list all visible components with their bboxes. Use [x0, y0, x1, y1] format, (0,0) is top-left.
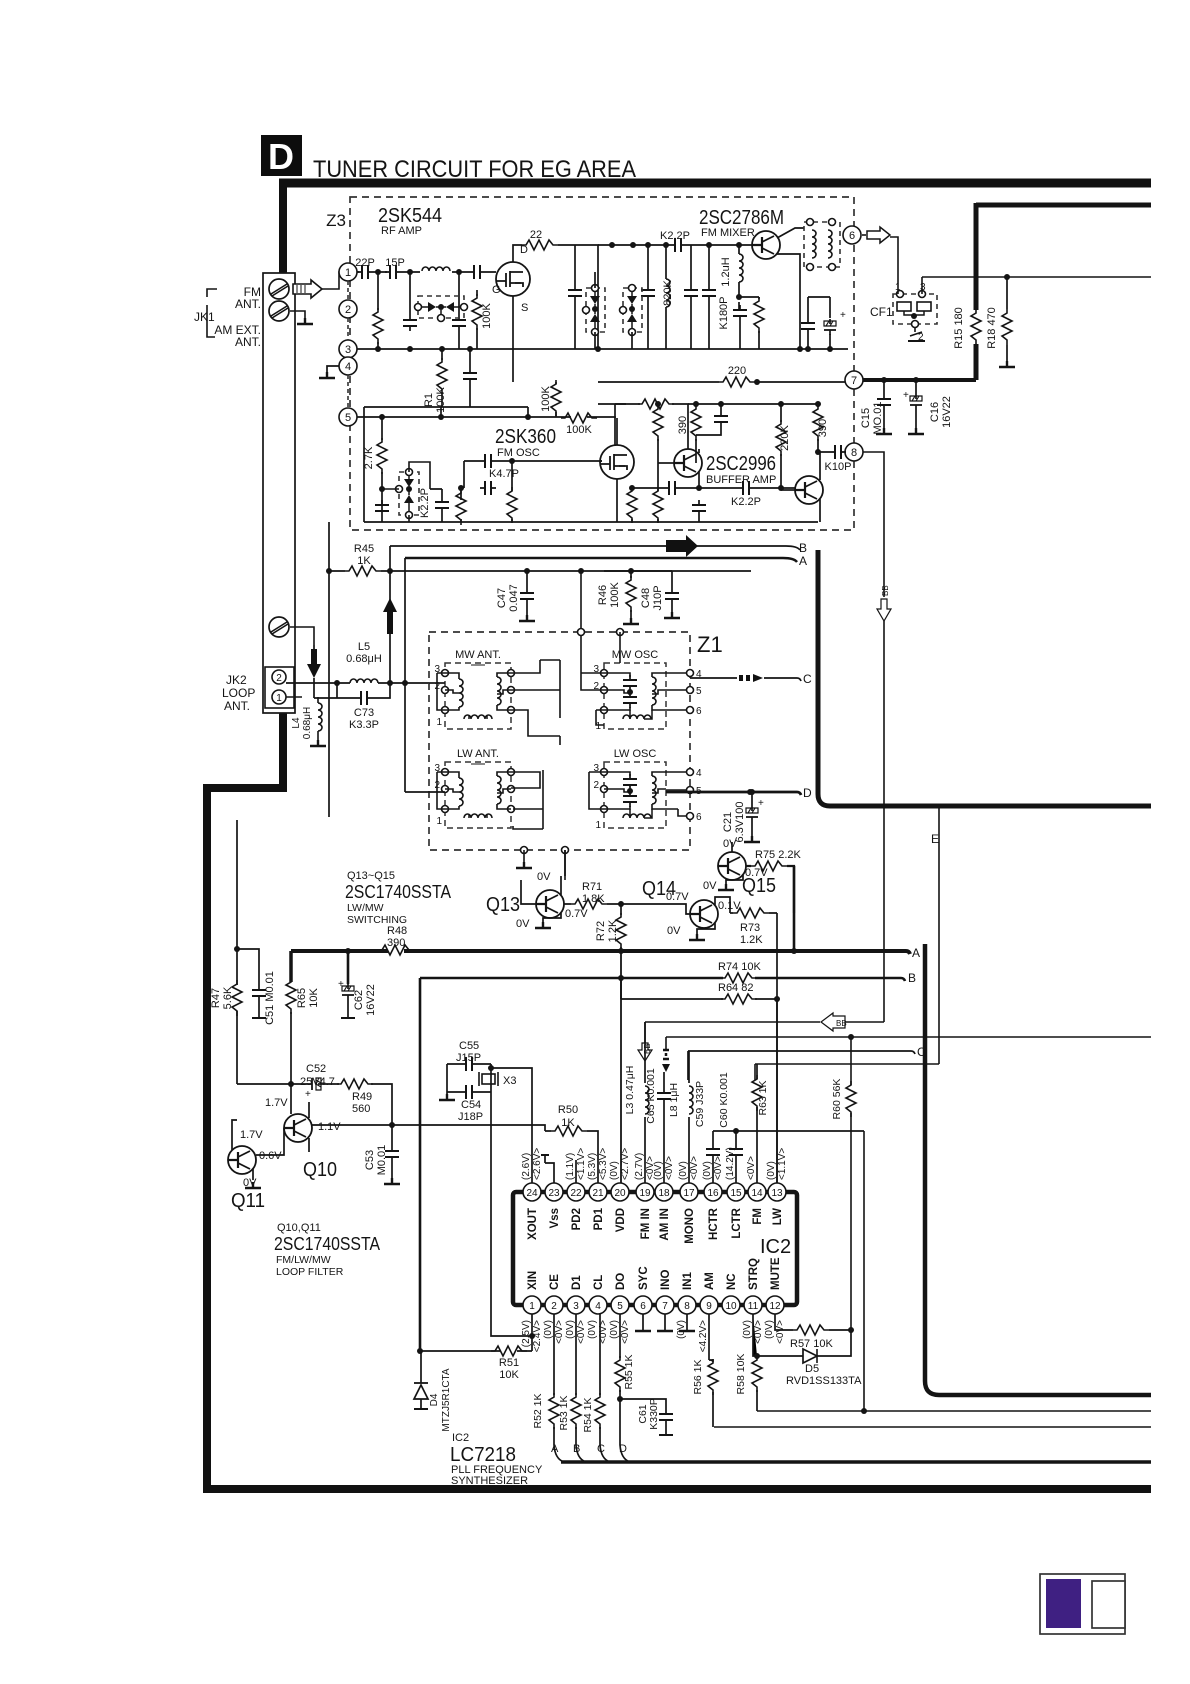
- svg-text:<4.2V>: <4.2V>: [698, 1320, 709, 1352]
- svg-text:R47: R47: [210, 988, 222, 1008]
- svg-text:390: 390: [817, 419, 829, 437]
- svg-text:Z1: Z1: [697, 632, 723, 657]
- svg-text:K3.3P: K3.3P: [349, 719, 379, 731]
- svg-text:<1.1V>: <1.1V>: [576, 1148, 587, 1180]
- svg-text:C16: C16: [929, 402, 941, 422]
- svg-text:+: +: [338, 979, 344, 990]
- svg-text:INO: INO: [660, 1270, 672, 1291]
- svg-text:FM: FM: [752, 1208, 764, 1225]
- svg-text:16: 16: [707, 1188, 719, 1199]
- svg-text:9: 9: [706, 1301, 712, 1312]
- svg-text:K2.2P: K2.2P: [419, 488, 431, 518]
- svg-text:7: 7: [851, 375, 857, 387]
- svg-text:J18P: J18P: [458, 1111, 483, 1123]
- svg-text:+: +: [903, 390, 909, 401]
- svg-text:16V22: 16V22: [365, 984, 377, 1016]
- svg-text:3: 3: [573, 1301, 579, 1312]
- svg-text:(2.7V): (2.7V): [634, 1153, 645, 1180]
- svg-text:R53 1K: R53 1K: [558, 1395, 570, 1430]
- svg-text:C48: C48: [640, 588, 652, 608]
- svg-text:A: A: [912, 946, 920, 960]
- svg-text:0.68μH: 0.68μH: [346, 653, 382, 665]
- svg-text:RF AMP: RF AMP: [381, 225, 422, 237]
- svg-text:AM IN: AM IN: [659, 1208, 671, 1241]
- svg-text:AM: AM: [704, 1272, 716, 1290]
- svg-text:4: 4: [595, 1301, 601, 1312]
- svg-text:22: 22: [570, 1188, 582, 1199]
- svg-text:100K: 100K: [566, 424, 592, 436]
- svg-text:BUFFER AMP: BUFFER AMP: [706, 474, 776, 486]
- svg-text:22: 22: [530, 229, 542, 241]
- svg-text:100K: 100K: [540, 385, 552, 411]
- svg-text:C52: C52: [306, 1063, 326, 1075]
- svg-text:0V: 0V: [516, 918, 530, 930]
- svg-text:1.7V: 1.7V: [240, 1129, 263, 1141]
- svg-text:7: 7: [662, 1301, 668, 1312]
- svg-text:ANT.: ANT.: [224, 699, 250, 713]
- svg-text:JK1: JK1: [194, 310, 215, 324]
- svg-text:CF1: CF1: [870, 305, 893, 319]
- svg-text:R73: R73: [740, 922, 760, 934]
- svg-text:C15: C15: [860, 408, 872, 428]
- svg-text:DO: DO: [615, 1273, 627, 1290]
- svg-text:MO.01: MO.01: [872, 401, 884, 434]
- svg-text:C21: C21: [722, 812, 734, 832]
- svg-text:ANT.: ANT.: [235, 297, 261, 311]
- svg-text:0V: 0V: [537, 871, 551, 883]
- svg-text:(0V): (0V): [766, 1161, 777, 1180]
- svg-text:MW ANT.: MW ANT.: [455, 649, 501, 661]
- svg-text:MTZJ5R1CTA: MTZJ5R1CTA: [441, 1368, 452, 1431]
- svg-text:<0V>: <0V>: [554, 1320, 565, 1344]
- svg-text:12: 12: [769, 1301, 781, 1312]
- svg-text:CE: CE: [549, 1274, 561, 1290]
- svg-text:+: +: [840, 310, 846, 321]
- svg-text:2SK360: 2SK360: [495, 426, 556, 448]
- svg-text:13: 13: [771, 1188, 783, 1199]
- svg-text:1.7V: 1.7V: [265, 1097, 288, 1109]
- svg-text:Q15: Q15: [742, 875, 776, 897]
- svg-text:R75 2.2K: R75 2.2K: [755, 849, 802, 861]
- svg-text:0.6V: 0.6V: [259, 1150, 282, 1162]
- svg-text:21: 21: [592, 1188, 604, 1199]
- svg-text:A: A: [551, 1443, 559, 1455]
- svg-text:1: 1: [345, 267, 351, 279]
- svg-text:8: 8: [851, 447, 857, 459]
- svg-text:<0V>: <0V>: [775, 1320, 786, 1344]
- svg-text:0.68μH: 0.68μH: [302, 707, 313, 739]
- svg-text:10: 10: [725, 1301, 737, 1312]
- svg-text:(0V): (0V): [609, 1320, 620, 1339]
- svg-text:560: 560: [352, 1103, 370, 1115]
- svg-text:B: B: [799, 541, 807, 555]
- svg-text:STRQ: STRQ: [748, 1258, 760, 1290]
- svg-text:2SC2996: 2SC2996: [706, 453, 776, 475]
- svg-text:D5: D5: [805, 1363, 819, 1375]
- svg-text:A: A: [799, 554, 807, 568]
- svg-text:C73: C73: [354, 707, 374, 719]
- svg-text:Z3: Z3: [326, 211, 346, 230]
- svg-text:6: 6: [696, 706, 702, 717]
- svg-text:R56 1K: R56 1K: [692, 1359, 704, 1394]
- svg-text:C55: C55: [459, 1040, 479, 1052]
- svg-text:R50: R50: [558, 1104, 578, 1116]
- svg-text:R1: R1: [423, 393, 435, 407]
- svg-text:<0V>: <0V>: [620, 1320, 631, 1344]
- svg-text:PD1: PD1: [593, 1207, 605, 1230]
- svg-text:2SK544: 2SK544: [378, 205, 442, 227]
- svg-text:K4.7P: K4.7P: [489, 468, 519, 480]
- svg-text:<0V>: <0V>: [664, 1156, 675, 1180]
- svg-text:C53: C53: [364, 1150, 376, 1170]
- svg-text:(14.2V): (14.2V): [725, 1147, 736, 1180]
- svg-text:L8 1μH: L8 1μH: [668, 1083, 680, 1117]
- svg-text:(0V): (0V): [764, 1320, 775, 1339]
- svg-text:L3 0.47μH: L3 0.47μH: [624, 1066, 636, 1115]
- svg-text:R60 56K: R60 56K: [831, 1079, 843, 1120]
- svg-text:<0V>: <0V>: [576, 1320, 587, 1344]
- svg-text:(0V): (0V): [565, 1320, 576, 1339]
- svg-text:FM OSC: FM OSC: [497, 447, 540, 459]
- svg-text:ANT.: ANT.: [235, 335, 261, 349]
- svg-text:6: 6: [849, 230, 855, 242]
- svg-text:24: 24: [526, 1188, 538, 1199]
- svg-text:LW: LW: [772, 1208, 784, 1225]
- svg-text:Q10: Q10: [303, 1159, 337, 1181]
- svg-text:VDD: VDD: [615, 1208, 627, 1232]
- svg-text:20: 20: [614, 1188, 626, 1199]
- svg-text:LW OSC: LW OSC: [614, 748, 657, 760]
- svg-text:Q11: Q11: [231, 1190, 265, 1212]
- svg-text:(0V): (0V): [702, 1161, 713, 1180]
- svg-text:Vss: Vss: [549, 1208, 561, 1228]
- svg-text:<2.6V>: <2.6V>: [532, 1148, 543, 1180]
- svg-text:R71: R71: [582, 881, 602, 893]
- svg-text:5.6K: 5.6K: [222, 986, 234, 1009]
- svg-text:C65 K0.001: C65 K0.001: [645, 1068, 657, 1124]
- svg-text:K180P: K180P: [718, 296, 730, 329]
- svg-text:(5.3V): (5.3V): [587, 1153, 598, 1180]
- svg-text:C47: C47: [496, 588, 508, 608]
- svg-text:D: D: [268, 136, 294, 177]
- svg-text:19: 19: [639, 1188, 651, 1199]
- svg-text:R72: R72: [595, 921, 607, 941]
- svg-text:MONO: MONO: [684, 1208, 696, 1244]
- svg-text:C54: C54: [461, 1099, 481, 1111]
- svg-text:C51 M0.01: C51 M0.01: [264, 971, 276, 1025]
- svg-text:<2.4V>: <2.4V>: [532, 1320, 543, 1352]
- svg-text:5: 5: [345, 412, 351, 424]
- svg-text:5: 5: [617, 1301, 623, 1312]
- svg-text:(0V): (0V): [609, 1161, 620, 1180]
- svg-text:B: B: [573, 1443, 580, 1455]
- svg-text:2: 2: [276, 673, 282, 684]
- svg-text:LCTR: LCTR: [731, 1207, 743, 1238]
- svg-text:RVD1SS133TA: RVD1SS133TA: [786, 1375, 862, 1387]
- svg-text:220K: 220K: [779, 424, 791, 450]
- svg-text:<0V>: <0V>: [713, 1156, 724, 1180]
- svg-text:0.7V: 0.7V: [666, 891, 689, 903]
- svg-text:IC2: IC2: [452, 1432, 469, 1444]
- svg-text:15: 15: [730, 1188, 742, 1199]
- svg-text:0V: 0V: [703, 880, 717, 892]
- svg-text:PD2: PD2: [571, 1208, 583, 1230]
- svg-text:<1.1V>: <1.1V>: [777, 1148, 788, 1180]
- svg-text:BB: BB: [836, 1019, 847, 1028]
- svg-text:MW OSC: MW OSC: [612, 649, 658, 661]
- svg-text:K10P: K10P: [825, 461, 852, 473]
- svg-text:LC7218: LC7218: [450, 1444, 516, 1466]
- svg-text:XOUT: XOUT: [527, 1208, 539, 1240]
- svg-text:B: B: [908, 971, 916, 985]
- svg-text:1.2K: 1.2K: [740, 934, 763, 946]
- svg-text:R65: R65: [296, 988, 308, 1008]
- svg-text:G: G: [492, 284, 501, 296]
- svg-text:D: D: [803, 786, 812, 800]
- svg-text:FM/LW/MW: FM/LW/MW: [276, 1254, 331, 1266]
- svg-text:IC2: IC2: [760, 1236, 791, 1258]
- svg-text:23: 23: [548, 1188, 560, 1199]
- svg-text:R55 1K: R55 1K: [623, 1354, 635, 1389]
- svg-text:0.047: 0.047: [508, 584, 520, 612]
- svg-text:R52 1K: R52 1K: [532, 1393, 544, 1428]
- svg-text:Q13: Q13: [486, 894, 520, 916]
- svg-text:220: 220: [728, 365, 746, 377]
- svg-text:(0V): (0V): [676, 1320, 687, 1339]
- svg-text:16V22: 16V22: [941, 396, 953, 428]
- svg-text:CL: CL: [593, 1275, 605, 1290]
- svg-text:<0V>: <0V>: [598, 1320, 609, 1344]
- svg-text:<0V>: <0V>: [753, 1320, 764, 1344]
- svg-text:SYC: SYC: [638, 1266, 650, 1290]
- svg-text:6: 6: [696, 812, 702, 823]
- svg-text:FM MIXER: FM MIXER: [701, 227, 755, 239]
- svg-text:<2.7V>: <2.7V>: [620, 1148, 631, 1180]
- svg-text:C: C: [803, 672, 812, 686]
- svg-text:R58 10K: R58 10K: [735, 1354, 747, 1395]
- svg-text:+: +: [758, 798, 764, 809]
- svg-text:(0V): (0V): [742, 1320, 753, 1339]
- svg-text:R63 1K: R63 1K: [757, 1080, 769, 1115]
- svg-text:1K: 1K: [357, 555, 371, 567]
- svg-text:(0V): (0V): [653, 1161, 664, 1180]
- svg-text:HCTR: HCTR: [708, 1207, 720, 1240]
- svg-text:R48: R48: [387, 925, 407, 937]
- svg-text:4: 4: [345, 361, 351, 373]
- svg-text:0V: 0V: [667, 925, 681, 937]
- svg-text:LW ANT.: LW ANT.: [457, 748, 499, 760]
- svg-text:S: S: [521, 302, 528, 314]
- svg-text:FM IN: FM IN: [640, 1208, 652, 1239]
- svg-text:1: 1: [276, 693, 282, 704]
- svg-text:(1.1V): (1.1V): [565, 1153, 576, 1180]
- svg-text:R18 470: R18 470: [986, 307, 998, 349]
- svg-text:390: 390: [387, 937, 405, 949]
- svg-text:(0V): (0V): [587, 1320, 598, 1339]
- svg-text:R46: R46: [597, 585, 609, 605]
- svg-text:R54 1K: R54 1K: [582, 1397, 594, 1432]
- svg-text:L5: L5: [358, 641, 370, 653]
- svg-text:<0V>: <0V>: [746, 1156, 757, 1180]
- svg-text:XIN: XIN: [527, 1271, 539, 1290]
- svg-text:JK2: JK2: [226, 673, 247, 687]
- svg-text:Q13~Q15: Q13~Q15: [347, 870, 395, 882]
- svg-text:D: D: [619, 1443, 627, 1455]
- svg-text:LOOP FILTER: LOOP FILTER: [276, 1266, 344, 1278]
- svg-text:1.1V: 1.1V: [318, 1121, 341, 1133]
- svg-text:R15 180: R15 180: [953, 307, 965, 349]
- svg-text:10K: 10K: [308, 988, 320, 1008]
- svg-text:6: 6: [640, 1301, 646, 1312]
- svg-text:5: 5: [696, 686, 702, 697]
- svg-text:2SC1740SSTA: 2SC1740SSTA: [345, 882, 451, 902]
- svg-text:X3: X3: [503, 1075, 516, 1087]
- svg-text:R51: R51: [499, 1357, 519, 1369]
- svg-text:11: 11: [748, 1301, 759, 1312]
- svg-text:2: 2: [345, 304, 351, 316]
- svg-text:1: 1: [529, 1301, 535, 1312]
- svg-text:6.3V100: 6.3V100: [734, 802, 746, 843]
- svg-text:2: 2: [551, 1301, 557, 1312]
- svg-text:<5.3V>: <5.3V>: [598, 1148, 609, 1180]
- svg-text:C62: C62: [353, 990, 365, 1010]
- svg-text:22P: 22P: [355, 257, 375, 269]
- svg-text:C59 J33P: C59 J33P: [694, 1081, 706, 1127]
- svg-text:<0V>: <0V>: [689, 1156, 700, 1180]
- svg-text:2SC1740SSTA: 2SC1740SSTA: [274, 1234, 380, 1254]
- svg-text:K330P: K330P: [648, 1398, 660, 1430]
- svg-text:MUTE: MUTE: [770, 1257, 782, 1290]
- svg-text:J15P: J15P: [456, 1052, 481, 1064]
- svg-text:R49: R49: [352, 1091, 372, 1103]
- svg-text:(0V): (0V): [543, 1320, 554, 1339]
- svg-text:NC: NC: [726, 1273, 738, 1290]
- svg-text:R57 10K: R57 10K: [790, 1338, 833, 1350]
- svg-text:C: C: [597, 1443, 605, 1455]
- svg-text:14: 14: [751, 1188, 763, 1199]
- svg-text:(2.6V): (2.6V): [521, 1153, 532, 1180]
- svg-text:K2.2P: K2.2P: [731, 496, 761, 508]
- svg-text:2.7K: 2.7K: [363, 446, 375, 469]
- svg-text:SYNTHESIZER: SYNTHESIZER: [451, 1475, 528, 1487]
- svg-text:D4: D4: [429, 1393, 440, 1406]
- svg-text:J10P: J10P: [652, 585, 664, 610]
- svg-text:M0.01: M0.01: [376, 1145, 388, 1176]
- svg-text:E: E: [931, 832, 939, 846]
- svg-text:R45: R45: [354, 543, 374, 555]
- svg-text:LOOP: LOOP: [222, 686, 255, 700]
- svg-text:2SC2786M: 2SC2786M: [699, 207, 784, 229]
- svg-text:+: +: [305, 1089, 311, 1100]
- svg-text:10K: 10K: [499, 1369, 519, 1381]
- svg-text:BB: BB: [881, 585, 890, 596]
- svg-text:17: 17: [683, 1188, 695, 1199]
- svg-text:(2.5V): (2.5V): [521, 1320, 532, 1347]
- svg-text:0.7V: 0.7V: [565, 908, 588, 920]
- svg-text:18: 18: [658, 1188, 670, 1199]
- svg-text:4: 4: [696, 768, 702, 779]
- svg-text:LW/MW: LW/MW: [347, 902, 384, 914]
- svg-text:Q10,Q11: Q10,Q11: [277, 1222, 321, 1234]
- svg-text:R74 10K: R74 10K: [718, 961, 761, 973]
- svg-text:3: 3: [920, 282, 926, 293]
- svg-text:R64 82: R64 82: [718, 982, 753, 994]
- svg-text:3: 3: [345, 344, 351, 356]
- svg-text:8: 8: [684, 1301, 690, 1312]
- svg-text:D1: D1: [571, 1275, 583, 1290]
- svg-text:(0V): (0V): [678, 1161, 689, 1180]
- svg-text:100K: 100K: [609, 581, 621, 607]
- svg-text:L4: L4: [291, 717, 302, 729]
- svg-text:IN1: IN1: [682, 1272, 694, 1291]
- svg-text:1.2uH: 1.2uH: [720, 257, 732, 286]
- svg-text:C60 K0.001: C60 K0.001: [718, 1072, 730, 1128]
- svg-text:C: C: [917, 1045, 926, 1059]
